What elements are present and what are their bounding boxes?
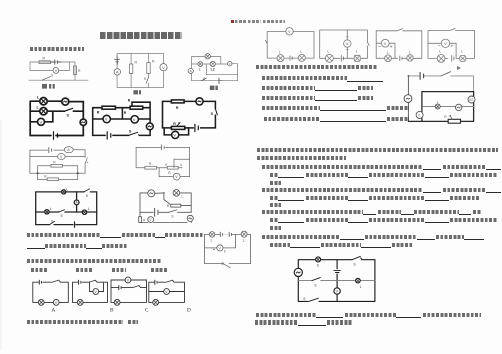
lamp L3 (C9) — [45, 210, 49, 214]
wire D3 outer — [376, 31, 422, 59]
battery C3 (bottom, bar+arrow) — [218, 78, 220, 84]
svg-text:V: V — [346, 42, 349, 46]
wire C10 outer — [140, 193, 191, 223]
svg-text:L: L — [360, 285, 362, 289]
lamp L (C10) — [173, 190, 180, 197]
resistor R0 (C8) — [167, 166, 178, 169]
voltmeter V (C4) — [38, 118, 45, 125]
meter A1 (E1 left) — [404, 95, 412, 103]
switch D — [166, 280, 172, 282]
lamp L1 (C4) — [40, 98, 47, 105]
svg-text:V: V — [444, 41, 447, 46]
battery D — [155, 280, 157, 284]
watermark text 格式 可编辑 推荐下载文档 — [235, 20, 246, 24]
lamp S1top (E2) — [316, 257, 321, 262]
circuit A — [33, 280, 69, 305]
question 3 text: 3、如图所示为用电压表测量灯泡两端电压的电路图，其中正确的是（ ） — [27, 259, 161, 263]
voltmeter V (E2) — [334, 288, 340, 294]
wire C outer — [111, 280, 147, 302]
svg-text:S: S — [354, 263, 356, 267]
ammeter A (C6) — [196, 98, 203, 105]
plus minus D3 — [379, 45, 392, 47]
Q8 item(3) line3 压。 — [270, 226, 281, 230]
junction dot C10 — [163, 192, 165, 194]
ammeter A1 (C10) — [148, 190, 155, 197]
resistor R1 — [39, 61, 51, 64]
resistor R2 (C1 right) — [74, 66, 77, 75]
svg-text:V: V — [162, 65, 165, 70]
svg-text:S: S — [303, 297, 305, 301]
wire D4 V branch — [428, 43, 456, 58]
options A图A B图B C图C D图D — [31, 268, 48, 272]
wire C5 mid row — [93, 108, 150, 119]
question 4 text: 4、下列各图中测量L2电压的电路，正确的是（ ） — [27, 320, 123, 324]
wire C6 V loop — [164, 128, 188, 135]
wire C4 row3 V branch — [30, 111, 53, 122]
battery C2 (left branch) — [115, 56, 120, 65]
svg-text:V: V — [40, 119, 43, 124]
voltmeter V (C3) — [228, 62, 232, 66]
lamp L1 (D4) — [437, 55, 445, 63]
junction dot E1 mid — [421, 106, 423, 108]
lamp L2 (D3) — [407, 55, 413, 61]
svg-text:R: R — [173, 122, 176, 126]
switch S (C7 right) — [85, 158, 88, 164]
ammeter A1 (C4 top) — [62, 98, 69, 105]
svg-text:B: B — [110, 308, 114, 314]
svg-text:L2: L2 — [211, 67, 215, 71]
svg-text:R: R — [43, 57, 46, 61]
scanner left edge shade — [0, 120, 2, 350]
wire C5 top-right step R3 — [132, 102, 150, 108]
Q8 item(2) line1 — [262, 188, 422, 192]
Q7 item (4) — [262, 106, 320, 110]
switch S (C11 bottom) — [222, 263, 223, 264]
svg-text:S: S — [67, 114, 70, 118]
voltmeter V (D3) — [381, 39, 389, 47]
svg-text:L: L — [182, 195, 184, 199]
voltmeter V (C6) — [172, 131, 179, 138]
svg-text:L: L — [356, 50, 358, 54]
wire B V loop — [90, 282, 104, 291]
wire C7 outer — [30, 150, 85, 174]
wire D1 outer — [267, 32, 314, 59]
switch S (C3 bottom) — [202, 78, 207, 81]
ammeter A3 top (C3) — [205, 54, 210, 59]
svg-text:L: L — [211, 238, 213, 242]
wire E1 top — [408, 76, 473, 92]
circuit B — [73, 280, 108, 305]
wire E1 left vertical — [407, 76, 409, 122]
question 1 text 1、下图中电压表测量谁的电压 — [30, 47, 84, 51]
svg-text:S: S — [211, 112, 214, 116]
wire E1 mid row — [422, 106, 474, 108]
lamp L1 (C11) — [209, 232, 215, 238]
wire C6 outer — [163, 101, 216, 128]
wire C9 outer — [36, 192, 97, 225]
resistor R1 (C5) — [102, 106, 115, 109]
plus minus D4 — [438, 45, 453, 47]
svg-text:S: S — [144, 77, 147, 81]
voltmeter V (C1) — [53, 68, 59, 74]
voltmeter B — [93, 289, 99, 295]
circuit C — [111, 277, 147, 305]
svg-text:S: S — [314, 284, 316, 288]
voltmeter V (C7) — [58, 154, 66, 160]
svg-text:S: S — [61, 214, 64, 218]
switch D2 (right) — [367, 42, 369, 46]
wire C4 row2 — [30, 110, 83, 112]
ammeter A (C5 right) — [146, 123, 153, 130]
svg-text:R: R — [97, 111, 100, 115]
battery C7 — [49, 148, 52, 153]
lamp D — [153, 300, 159, 306]
ammeter A (C9) — [74, 200, 79, 205]
Q7 item (2) — [262, 86, 315, 90]
svg-text:R: R — [78, 69, 81, 73]
voltmeter V2 (C5) — [131, 116, 138, 123]
svg-text:R: R — [444, 115, 447, 119]
svg-text:R: R — [168, 171, 171, 175]
switch D3 (top) — [397, 29, 402, 31]
lamp L2 (D4) — [460, 55, 466, 61]
svg-text:R: R — [143, 218, 146, 222]
Q7 header: 判断右图中所示电路的连接方式以及电表所测量的对象 — [256, 65, 377, 69]
ammeter A (E2 left) — [294, 268, 302, 276]
battery E1 — [420, 72, 424, 79]
battery D2 — [341, 56, 343, 62]
lamp L2 (C9) — [82, 210, 86, 214]
wire C7 inner rect — [38, 166, 78, 174]
svg-text:R: R — [167, 204, 170, 208]
lamp L2 (C3) — [210, 61, 215, 66]
svg-text:L: L — [243, 239, 245, 243]
Q8 item(4) line2 — [270, 243, 290, 247]
voltmeter D — [164, 289, 170, 295]
Q7 item (1) — [262, 76, 347, 80]
rheostat R (E1) — [448, 119, 460, 123]
svg-text:S: S — [171, 215, 174, 219]
voltmeter V (C2) — [160, 64, 167, 71]
lamp L2 (D1) — [298, 54, 305, 61]
label 图3 — [133, 90, 141, 94]
svg-text:L: L — [37, 106, 40, 110]
lamp L1 (C9) — [62, 190, 66, 194]
ammeter A (C7) — [64, 147, 73, 153]
ammeter A (C2) — [114, 69, 120, 75]
resistor R1 (C7) — [51, 164, 62, 167]
wire C7 bottom loop — [38, 173, 78, 179]
wire C9 mid row — [36, 211, 97, 213]
ammeter A (C3 left) — [188, 68, 193, 73]
svg-text:L: L — [409, 50, 411, 54]
voltmeter V1 (E1 lower left) — [416, 111, 423, 118]
battery C8 — [161, 145, 164, 150]
battery C4 (bottom) — [54, 132, 58, 140]
Q9 text line2: 的电流，电压表V测量 两端的电压。 — [255, 320, 298, 324]
Q9 text line1: 如图1 电灯L1、L2是 联 电流表A1测量通过 的电流 电流表A2测通过 — [256, 313, 316, 317]
question 2 text line2: 接线柱，V测量 两端的电压. — [27, 247, 45, 250]
circuit D — [149, 280, 185, 305]
svg-text:R: R — [128, 99, 131, 103]
battery C10 — [155, 208, 158, 216]
lamp L (E1) — [435, 104, 440, 109]
svg-text:L: L — [66, 188, 68, 192]
svg-text:R: R — [135, 61, 138, 65]
voltmeter V (D2) — [344, 40, 351, 47]
lamp L2 (C11) — [241, 231, 247, 237]
wire C6 bottom row — [163, 127, 202, 129]
resistor R2 (C5) — [130, 106, 143, 109]
switch S3 (C9) — [59, 210, 65, 212]
junction dot E1 — [408, 75, 410, 77]
battery C1 — [51, 60, 62, 64]
wire E1 inner rect (bold) — [408, 92, 473, 122]
wire C2 outer rect — [117, 53, 163, 87]
battery C — [119, 286, 121, 290]
svg-text:L: L — [88, 207, 90, 211]
Q7 item (5) — [264, 117, 320, 121]
wire C7 second row — [30, 156, 85, 158]
wire C8 outer — [136, 147, 190, 176]
battery E2 (on mid vertical) — [334, 270, 341, 272]
wire D2 outer — [320, 30, 368, 58]
svg-text:R: R — [149, 162, 152, 166]
rheostat R (C10) — [164, 193, 170, 204]
wire D2 mid branch — [346, 30, 348, 58]
svg-text:V: V — [384, 42, 387, 46]
Q8 item(1) line1 — [262, 165, 422, 169]
wire C1 middle branch — [30, 62, 70, 70]
switch S (C6 right) — [215, 109, 217, 115]
switch D1 (left) — [266, 40, 268, 44]
lamp L1 (D2) — [325, 54, 333, 62]
Q8 item(2) line2 — [270, 196, 278, 200]
switch S (C1) — [42, 77, 51, 81]
voltmeter V2 (E1 right) — [468, 96, 475, 103]
lamp L2 (C4) — [40, 108, 47, 115]
svg-text:A: A — [52, 308, 56, 314]
wire C1 outer loop — [29, 62, 88, 80]
battery D1 — [290, 56, 292, 60]
svg-text:L: L — [328, 50, 330, 54]
battery D4 — [452, 56, 454, 62]
plus minus marks D2 — [346, 36, 348, 50]
svg-text:S: S — [51, 73, 54, 77]
svg-text:L: L — [437, 100, 439, 104]
voltmeter V (D4) — [441, 39, 449, 47]
resistor R2 (C2) — [147, 63, 150, 74]
wire C3 mid row — [192, 63, 238, 65]
svg-text:V2: V2 — [469, 98, 473, 102]
Q8 paragraph line1 — [257, 148, 498, 152]
switch S1 (C9) — [84, 189, 90, 192]
wire C10 mid row — [140, 211, 191, 213]
svg-text:R: R — [53, 161, 56, 165]
svg-text:V: V — [55, 69, 58, 73]
Q8 item(1) line3 压。 — [270, 181, 281, 185]
wire E2 outer — [298, 258, 375, 301]
voltmeter V (C11) — [217, 245, 223, 251]
svg-text:S: S — [129, 130, 132, 134]
lamp L2 (D2) — [354, 55, 360, 61]
wire B outer — [73, 280, 108, 302]
label 图4 — [210, 86, 218, 90]
wire D4 outer — [428, 31, 475, 59]
switch S2 (E2 top) — [352, 256, 360, 259]
svg-text:L: L — [300, 50, 302, 54]
wire C mid row — [111, 286, 147, 288]
svg-text:V: V — [133, 118, 136, 122]
Q8 paragraph line2 — [257, 156, 346, 160]
lamp A — [38, 300, 44, 306]
svg-text:R: R — [176, 106, 179, 110]
wire C8 step — [174, 159, 190, 167]
Q8 item(1) line2 — [270, 173, 278, 177]
switch S3 (E2 mid) — [312, 278, 320, 281]
switch S (C5) — [129, 132, 138, 135]
svg-text:V: V — [173, 134, 176, 138]
svg-text:S: S — [86, 194, 89, 198]
Q8 item(4) line1 — [262, 235, 340, 239]
watermark red square — [231, 20, 234, 24]
Q8 item(3) line1 — [262, 210, 363, 214]
svg-text:D: D — [187, 308, 191, 314]
switch B — [89, 280, 95, 282]
resistor R (C8) — [145, 166, 157, 169]
switch S4 (E2 bottom) — [309, 298, 319, 301]
battery C9 (bar+arrow) — [74, 222, 76, 228]
battery C5 — [107, 132, 111, 139]
wire D mid row — [149, 291, 185, 293]
voltmeter C (top) — [125, 277, 131, 283]
wire C2 branch R2 — [148, 53, 150, 87]
wire C5 outer — [93, 102, 150, 135]
ammeter A2 (C4 right) — [80, 119, 86, 125]
svg-text:R: R — [124, 111, 127, 115]
svg-text:L: L — [461, 50, 463, 54]
resistor R0 (C10 left) — [139, 217, 142, 223]
label 图12 — [42, 84, 55, 89]
question 2 text line1: 2、如下图所示 L1和L2是 联 V的a端是 接线柱 b端是 — [27, 233, 100, 237]
svg-text:R: R — [152, 60, 155, 64]
rheostat R2 (C6) — [171, 126, 184, 129]
switch C — [133, 286, 139, 288]
svg-text:L: L — [50, 207, 52, 211]
voltmeter V1 (C5) — [103, 115, 110, 122]
wire C9 center branch — [76, 192, 78, 212]
switch S (E1) — [441, 72, 450, 76]
lamp L1 (D1) — [277, 55, 284, 62]
svg-text:S: S — [317, 263, 319, 267]
wire C4 outer rect — [30, 101, 83, 135]
svg-text:L: L — [199, 68, 201, 72]
resistor R1 (C6) — [171, 100, 184, 103]
voltmeter V (C8) — [173, 173, 180, 180]
ammeter A2 (C10 right) — [187, 215, 193, 221]
Q8 item(3) line2 — [270, 218, 278, 222]
wire C11 mid branch — [204, 234, 235, 248]
wire E2 mid vertical — [336, 260, 338, 302]
labels A B C D — [52, 308, 192, 314]
svg-text:L: L — [439, 50, 441, 54]
voltmeter V (D1) — [286, 28, 293, 35]
svg-text:V: V — [105, 118, 108, 122]
lamp B — [77, 300, 83, 306]
Q8 item(2) line3 压。 — [270, 203, 281, 207]
Q7 item (3) — [262, 96, 315, 100]
svg-text:V: V — [229, 62, 231, 66]
wire E2 mid row — [298, 280, 375, 282]
lamp C — [114, 300, 120, 306]
wire C8 V loop — [159, 168, 190, 177]
svg-text:a: a — [165, 162, 167, 166]
resistor R1 (C2) — [129, 64, 132, 74]
junction dots C7 — [37, 172, 39, 174]
switch A — [52, 280, 59, 282]
switch D4 (top) — [450, 28, 456, 30]
battery cells C11 — [220, 232, 231, 236]
switch S (C2) — [146, 77, 148, 83]
ammeter A (E1 mid) — [456, 104, 462, 110]
svg-text:S: S — [203, 77, 206, 81]
battery B — [79, 280, 81, 284]
svg-text:b: b — [224, 249, 226, 253]
switch S2 (C9 bottom) — [50, 221, 55, 224]
lamp L1 (C3) — [198, 62, 203, 67]
wire C11 outer — [204, 234, 250, 263]
svg-text:C: C — [145, 308, 149, 314]
switch S (C4) — [65, 108, 73, 111]
svg-text:L: L — [37, 95, 40, 99]
voltmeter V (C10) — [148, 217, 154, 223]
wire C3 inner loop — [206, 64, 237, 75]
label a — [213, 249, 214, 250]
lamp L1 (D3) — [385, 55, 392, 62]
battery A — [39, 280, 41, 284]
wire D3 V branch — [376, 43, 395, 58]
switch S (C10) — [169, 210, 177, 212]
battery D3 — [400, 56, 402, 60]
wire C3 outer — [192, 57, 238, 81]
wire C2 branch R1 — [130, 53, 132, 87]
voltmeter A — [53, 300, 59, 306]
battery C6 — [195, 124, 198, 131]
svg-text:b: b — [180, 163, 182, 167]
wire A outer — [33, 281, 69, 303]
lamp L2 (E2 mid) — [356, 278, 361, 283]
title 电流表和电压表测量练习题 — [100, 32, 182, 39]
wire D outer — [149, 280, 185, 302]
resistor R2 (C7 bottom) — [47, 178, 59, 181]
svg-text:L: L — [279, 50, 281, 54]
svg-text:L: L — [387, 51, 389, 55]
